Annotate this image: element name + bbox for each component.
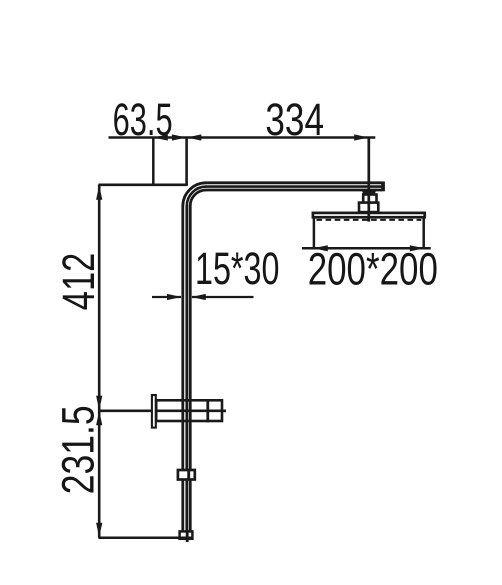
wall bracket divider	[206, 399, 209, 422]
wall bracket centerline	[155, 409, 226, 412]
svg-text:231.5: 231.5	[52, 405, 103, 494]
extension line bottom horizontal	[98, 536, 193, 539]
svg-text:200*200: 200*200	[308, 244, 438, 295]
arrowhead 200*200 right	[410, 245, 425, 251]
riser bottom center tick	[186, 531, 189, 542]
dimension line 15*30 right	[192, 296, 254, 298]
arrowhead 334 left	[187, 134, 202, 140]
shower head top bar	[313, 213, 425, 217]
svg-text:15*30: 15*30	[195, 243, 279, 294]
head connector upper block	[363, 195, 376, 203]
svg-text:334: 334	[265, 94, 324, 145]
arrowhead 63.5 right	[172, 134, 187, 140]
arm bottom wall	[206, 189, 382, 192]
head connector nut	[362, 190, 376, 195]
wall bracket body	[156, 400, 222, 421]
extension line 63.5 left	[152, 138, 155, 185]
riser pipe middle line	[185, 206, 188, 533]
arrowhead 231.5 bottom	[96, 523, 102, 538]
riser bend inner arc	[190, 190, 206, 206]
extension line bracket centerline	[98, 409, 226, 412]
arrowhead 63.5 left	[153, 134, 168, 140]
dimension line top (63.5 / 334)	[109, 136, 376, 139]
riser bend outer arc	[183, 183, 206, 206]
arrowhead 334 right	[354, 134, 369, 140]
arrowhead 412 bottom	[96, 396, 102, 411]
arm top wall	[206, 181, 383, 184]
riser pipe left wall	[181, 206, 184, 533]
arrowhead 15*30 left	[167, 294, 182, 300]
arrowhead 15*30 right	[191, 294, 206, 300]
riser pipe right wall	[189, 206, 192, 533]
head centerline	[367, 138, 370, 222]
shower head nozzle dashes	[317, 219, 422, 221]
dimension line 15*30 left	[152, 296, 181, 298]
arm end cap	[381, 182, 385, 192]
extension line top horizontal	[98, 184, 187, 187]
riser bend middle arc	[187, 187, 206, 206]
riser bottom end cap	[180, 531, 193, 538]
arm middle line	[206, 185, 382, 188]
slider sleeve on riser	[178, 470, 195, 480]
extension line 63.5/334 shared	[185, 138, 188, 186]
slider sleeve divider	[187, 470, 190, 480]
svg-text:412: 412	[53, 253, 104, 311]
shower head right side	[422, 218, 425, 249]
svg-text:63.5: 63.5	[113, 94, 173, 145]
arrowhead 200*200 left	[313, 245, 328, 251]
dimension line left vertical (412 / 231.5)	[98, 185, 101, 538]
head connector lower block	[359, 203, 378, 213]
arrowhead 412 top	[96, 185, 102, 200]
wall bracket flange plate	[152, 395, 156, 428]
dimension line 200*200	[302, 247, 431, 250]
shower head left side	[313, 218, 316, 249]
arrowhead 231.5 top	[96, 411, 102, 426]
